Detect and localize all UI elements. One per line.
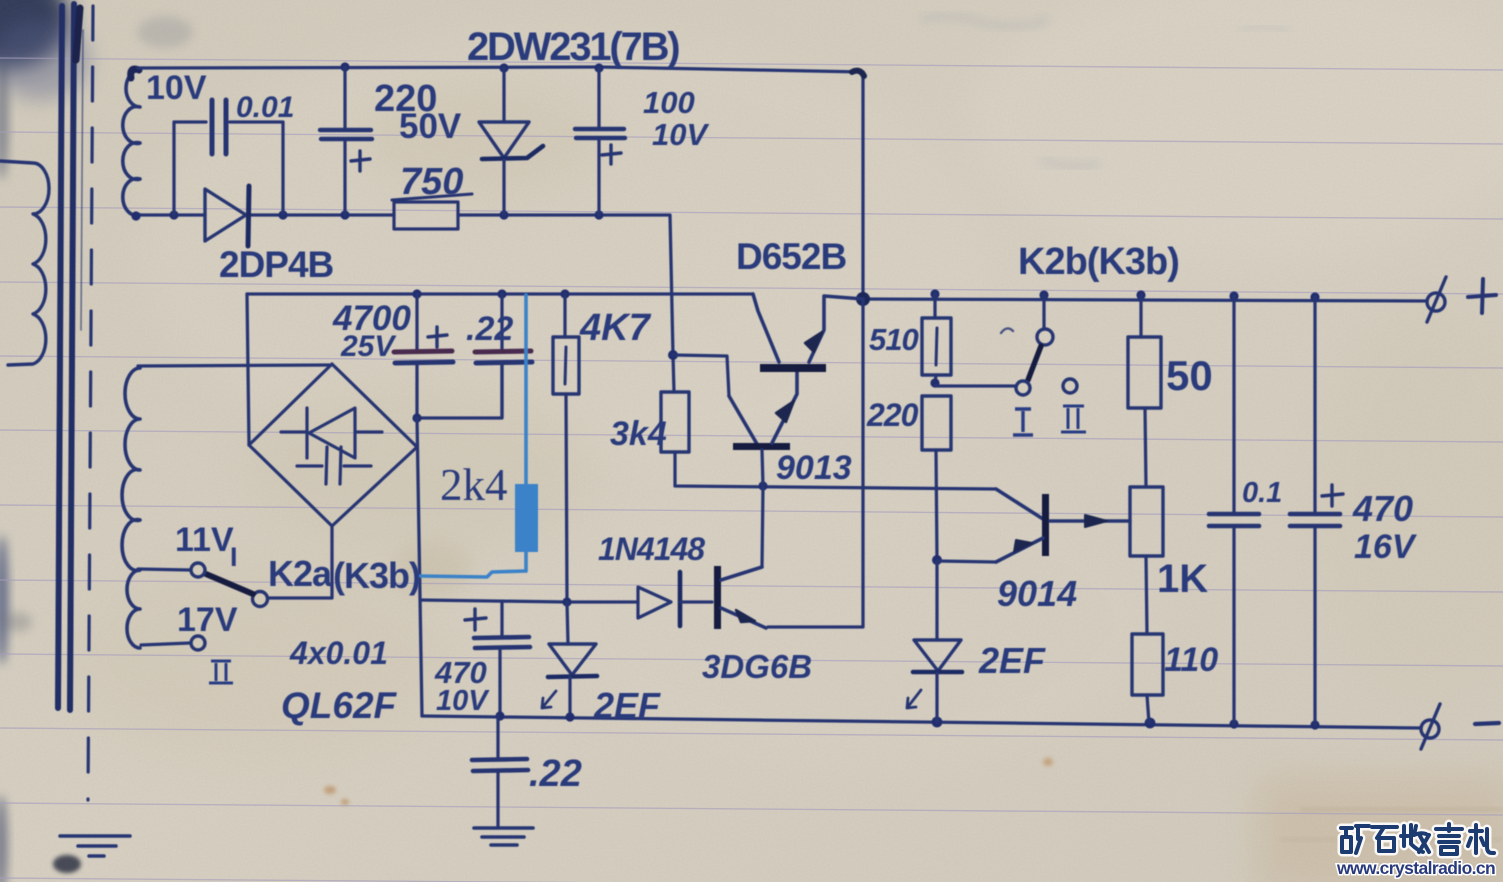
transistor Q D652B (753, 294, 779, 362)
svg-text:K2b(K3b): K2b(K3b) (1018, 241, 1179, 283)
svg-text:0.1: 0.1 (1242, 477, 1282, 509)
transistor Q 9014 (996, 489, 1043, 519)
resistor 110 (1132, 634, 1163, 695)
shield ground (60, 836, 130, 856)
winding 11V/17V (122, 368, 140, 648)
switch K2a lever (206, 574, 253, 594)
svg-text:www.crystalradio.cn: www.crystalradio.cn (1336, 858, 1495, 878)
capacitor C .22 (500, 294, 503, 350)
capacitor C 470/10V (500, 601, 503, 636)
plus mark 470 (465, 609, 486, 630)
svg-text:(K3b): (K3b) (333, 555, 420, 596)
diode inside bridge 2 (297, 447, 371, 484)
svg-text:220: 220 (866, 397, 919, 433)
terminal minus output (1421, 720, 1439, 738)
wire output node down to 3DG6B emitter (768, 299, 863, 627)
svg-text:510: 510 (869, 322, 918, 357)
svg-text:50V: 50V (399, 107, 462, 146)
svg-text:100: 100 (643, 85, 695, 120)
svg-text:2DP4B: 2DP4B (219, 244, 334, 285)
label II K2b (1061, 406, 1086, 432)
svg-text:QL62F: QL62F (281, 685, 398, 726)
arrow 2EF second (907, 690, 921, 708)
terminal plus output (1427, 293, 1445, 311)
wire bus to bridge AC corner (247, 294, 249, 445)
resistor 50 (1139, 295, 1142, 337)
diode 1N4148 (567, 600, 638, 603)
wire main bus (regulator output rail) (247, 292, 753, 295)
svg-text:4K7: 4K7 (579, 307, 652, 349)
node minus junction (412, 413, 421, 422)
node 9013 emitter junction (758, 481, 767, 490)
wire 0.01 branch (174, 122, 206, 215)
switch K2a contact I (191, 563, 205, 577)
capacitor C 470/16V (1313, 297, 1316, 512)
diode 2DP4B (205, 189, 246, 241)
primary winding (0, 161, 49, 365)
switch K2b (1042, 295, 1045, 329)
wire 9014 base to pot wiper (1050, 519, 1130, 522)
svg-text:25V: 25V (340, 330, 397, 363)
watermark chinese characters (1341, 824, 1494, 854)
node bus junctions (412, 289, 421, 298)
resistor 4K7 (563, 294, 566, 337)
wire minus rail down (417, 418, 422, 716)
plus mark 470/16V (1322, 485, 1343, 506)
node bottom bus junctions (495, 711, 504, 720)
svg-text:16V: 16V (1354, 528, 1418, 566)
resistor 510 (933, 294, 936, 318)
node zener chain junction (562, 597, 571, 606)
svg-text:2EF: 2EF (593, 685, 661, 726)
diode 2EF first (567, 602, 568, 644)
svg-text:.22: .22 (466, 310, 513, 348)
svg-text:470: 470 (1352, 488, 1413, 529)
diode 2EF second (935, 561, 938, 640)
wire 510/220 node to K2b contact I (935, 384, 1015, 387)
wire top bus (138, 67, 863, 72)
wire bottom minus bus (422, 716, 1421, 728)
transistor Q 9013 (673, 355, 729, 396)
wire reference chain vertical (673, 355, 674, 392)
svg-text:K2a: K2a (268, 553, 333, 594)
winding 10V (123, 70, 140, 216)
svg-text:10V: 10V (652, 117, 709, 152)
svg-text:10V: 10V (146, 69, 207, 107)
wire winding top to bridge (138, 365, 332, 366)
resistor 750 (394, 202, 458, 229)
svg-text:17V: 17V (177, 601, 238, 639)
svg-text:110: 110 (1164, 641, 1218, 679)
svg-text:.22: .22 (529, 753, 582, 795)
svg-text:2DW231(7B): 2DW231(7B) (467, 25, 679, 69)
svg-text:10V: 10V (436, 685, 490, 717)
svg-text:1K: 1K (1157, 557, 1208, 601)
svg-text:1N4148: 1N4148 (598, 531, 705, 567)
capacitor 0.01 (212, 100, 226, 154)
wire top bus drop to output node (861, 72, 864, 299)
svg-text:9013: 9013 (776, 449, 852, 487)
svg-text:3k4: 3k4 (610, 415, 667, 453)
capacitor C 4700/25V (415, 294, 418, 350)
plus mark 100 (602, 145, 621, 164)
svg-text:50: 50 (1166, 352, 1213, 399)
svg-text:11V: 11V (175, 521, 234, 559)
capacitor C .22 bottom (496, 716, 499, 758)
transformer T1 core (58, 4, 83, 710)
resistor 3K4 (661, 392, 689, 452)
resistor 220 (922, 396, 951, 450)
bridge rectifier QL62F diamond (249, 364, 417, 526)
svg-text:I: I (230, 542, 238, 572)
svg-text:D652B: D652B (736, 236, 846, 277)
potentiometer 1K (1130, 487, 1163, 556)
node reference junction (668, 350, 678, 360)
zener 2DW231 (502, 68, 505, 122)
svg-text:2k4: 2k4 (440, 460, 508, 510)
svg-text:2EF: 2EF (978, 640, 1046, 681)
node top bus junctions (340, 62, 349, 71)
arrow 2EF first (542, 691, 556, 708)
node rail junctions (169, 210, 178, 219)
node 510/220 junction (930, 378, 939, 387)
svg-text:0.01: 0.01 (236, 91, 294, 124)
wire 10V winding bottom rail (137, 213, 205, 216)
svg-text:3DG6B: 3DG6B (702, 648, 812, 685)
wire .22 bottom to minus node (417, 364, 502, 418)
svg-text:750: 750 (400, 161, 463, 203)
capacitor C 220/50V (343, 67, 346, 128)
svg-text:4x0.01: 4x0.01 (289, 635, 388, 671)
capacitor C 0.1 (1232, 296, 1235, 512)
node 9014 emitter junction (932, 555, 942, 565)
label I K2b (1013, 409, 1033, 435)
capacitor C 100/10V (597, 68, 600, 128)
wire zener chain (421, 600, 567, 602)
ground (474, 828, 533, 845)
switch K2a contact II (191, 636, 205, 650)
switch K2a pivot (253, 592, 268, 607)
wire bridge bottom to K2a wiper (268, 526, 332, 598)
wire 11V tap to contact I (138, 569, 190, 570)
svg-text:9014: 9014 (997, 573, 1077, 614)
transformer shield dashed line (88, 6, 93, 800)
label II sub K2a (209, 661, 233, 683)
plus mark 220 (351, 151, 370, 171)
wire 17V tap to contact II (141, 643, 190, 645)
plus mark 4700 (428, 327, 447, 347)
annotation 2k4 resistor mark (420, 295, 526, 577)
diode inside bridge 1 (281, 408, 382, 458)
transistor Q 3DG6B (714, 566, 721, 629)
